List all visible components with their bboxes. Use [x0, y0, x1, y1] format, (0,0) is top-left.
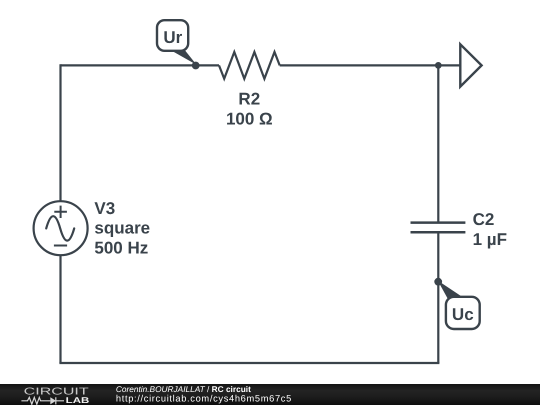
wire node A to output port — [438, 64, 460, 66]
voltage source V3 circle body — [34, 201, 88, 255]
voltage source V3 sine squiggle — [46, 216, 74, 240]
CircuitLab logo resistor zigzag and wire — [21, 397, 64, 404]
wire right upper vertical (node A to C2 top plate) — [437, 65, 439, 222]
resistor R2 zigzag body — [219, 52, 280, 79]
output port arrow (node A) — [460, 44, 481, 86]
voltage source V3 minus terminal mark — [54, 245, 67, 247]
probe Uc attachment dot on right wire — [434, 278, 442, 286]
svg-text:V3: V3 — [94, 199, 115, 218]
capacitor C2 — [411, 210, 507, 249]
svg-text:LAB: LAB — [66, 395, 90, 405]
svg-text:Ur: Ur — [163, 28, 182, 47]
probe Ur — [157, 20, 200, 69]
svg-text:R2: R2 — [238, 90, 260, 109]
voltage source V3 plus terminal mark — [54, 206, 67, 218]
svg-text:Uc: Uc — [452, 305, 474, 324]
probe Uc pointer wedge — [438, 281, 463, 299]
svg-text:100 Ω: 100 Ω — [226, 110, 273, 129]
svg-text:http://circuitlab.com/cys4h6m5: http://circuitlab.com/cys4h6m5m67c5 — [116, 394, 292, 404]
probe Uc — [434, 278, 479, 329]
wire top-right horizontal (R2 right to node A) — [280, 64, 439, 66]
resistor R2 — [219, 52, 280, 129]
CircuitLab logo diode triangle — [50, 397, 56, 404]
svg-text:C2: C2 — [473, 210, 495, 229]
svg-text:500 Hz: 500 Hz — [94, 239, 148, 258]
svg-text:square: square — [94, 219, 150, 238]
wire bottom horizontal — [59, 362, 439, 364]
svg-text:Corentin.BOURJAILLAT / RC circ: Corentin.BOURJAILLAT / RC circuit — [116, 384, 251, 394]
wire right lower vertical (C2 bottom plate to bottom wire) — [437, 232, 439, 363]
wire left lower vertical — [59, 255, 61, 363]
svg-text:1 µF: 1 µF — [473, 230, 507, 249]
probe Uc flag box — [446, 297, 480, 329]
capacitor C2 top plate — [411, 221, 466, 224]
voltage source V3 — [34, 199, 151, 258]
probe Ur flag box — [157, 20, 188, 51]
wire top-left horizontal (V3 top to R2 left) — [61, 64, 220, 66]
capacitor C2 bottom plate — [411, 231, 466, 234]
probe Ur attachment dot on top wire — [192, 62, 200, 70]
probe Ur pointer wedge — [171, 50, 197, 65]
wire left upper vertical — [59, 64, 61, 201]
junction node A (top right) — [435, 62, 442, 69]
